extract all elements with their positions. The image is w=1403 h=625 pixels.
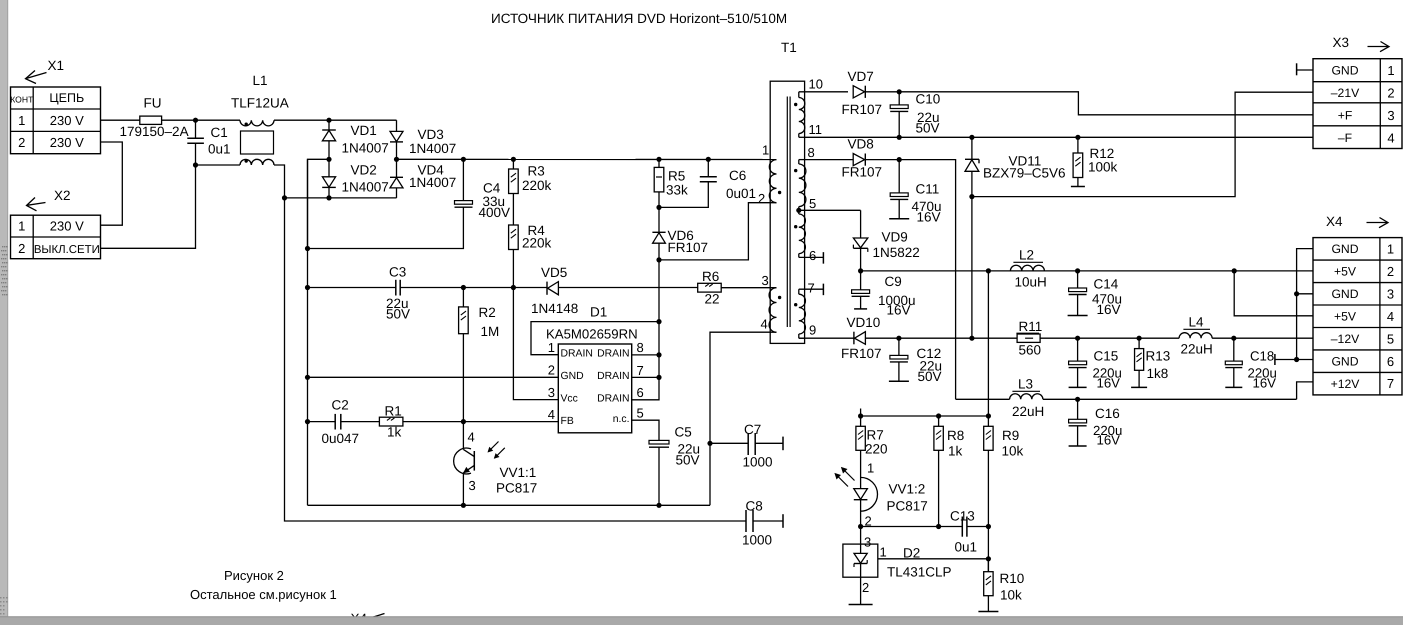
connector X4 arrow <box>1367 222 1388 224</box>
svg-text:33k: 33k <box>666 183 688 198</box>
wire fuse to L1 <box>162 119 240 121</box>
transformer T1 secondary winding 8-5-6 <box>798 160 800 164</box>
svg-text:4: 4 <box>468 430 475 445</box>
transformer T1 pin11 lead <box>799 136 805 138</box>
connector X2 table <box>11 215 101 259</box>
svg-text:TL431CLP: TL431CLP <box>887 565 952 580</box>
IC D1 KA5M02659RN box <box>558 344 631 433</box>
svg-text:ЦЕПЬ: ЦЕПЬ <box>49 91 84 105</box>
svg-text:C14: C14 <box>1094 277 1119 292</box>
svg-text:DRAIN: DRAIN <box>597 394 629 405</box>
capacitor C15 <box>1077 338 1079 361</box>
svg-text:50V: 50V <box>918 369 942 384</box>
svg-text:R5: R5 <box>668 169 685 184</box>
capacitor C3 <box>308 287 396 289</box>
svg-text:L4: L4 <box>1189 315 1205 330</box>
wire R7 R8 R9 top line <box>861 415 989 417</box>
svg-text:C6: C6 <box>729 168 746 183</box>
connector X3 GND stub <box>1297 69 1313 71</box>
svg-text:R1: R1 <box>385 404 402 419</box>
wire X4.1 GND stub <box>1297 249 1313 360</box>
svg-text:1k8: 1k8 <box>1147 366 1169 381</box>
wire +5V line <box>861 270 1313 272</box>
svg-text:C15: C15 <box>1094 349 1119 364</box>
resistor R7 <box>860 416 862 426</box>
node R12 top <box>1075 135 1080 140</box>
node R7R9 riser top <box>986 268 991 273</box>
svg-text:VV1:2: VV1:2 <box>889 482 926 497</box>
svg-text:+12V: +12V <box>1331 377 1361 391</box>
diode VD3 <box>396 120 398 131</box>
node VD2 bottom <box>326 195 331 200</box>
svg-text:220: 220 <box>865 442 888 457</box>
svg-text:5: 5 <box>809 196 816 211</box>
node R5 top <box>656 157 661 162</box>
resistor R9 <box>987 416 989 426</box>
svg-text:Vcc: Vcc <box>561 394 578 405</box>
node +5V riser to X4.4 <box>1232 268 1237 273</box>
svg-text:3: 3 <box>864 535 871 550</box>
svg-text:0u047: 0u047 <box>322 431 360 446</box>
svg-text:VD7: VD7 <box>848 69 874 84</box>
resistor R10 <box>987 559 989 572</box>
svg-text:R7: R7 <box>867 428 884 443</box>
transformer T1 primary winding 1-2 <box>769 160 776 203</box>
wire AC1 top rail <box>274 119 397 121</box>
wire x307 bus <box>307 159 309 505</box>
svg-text:10uH: 10uH <box>1015 275 1047 290</box>
wire +5V riser to R7 R8 R9 <box>987 271 989 416</box>
node GND line on bus <box>305 375 310 380</box>
svg-text:FB: FB <box>561 416 574 427</box>
svg-text:2: 2 <box>1387 85 1394 100</box>
node X4.6 GND <box>1294 357 1299 362</box>
capacitor C13 <box>961 517 963 537</box>
diode VD9 <box>860 210 862 238</box>
svg-text:22: 22 <box>705 292 720 307</box>
svg-text:22uH: 22uH <box>1012 404 1044 419</box>
svg-text:8: 8 <box>637 340 644 355</box>
svg-text:C11: C11 <box>916 182 940 197</box>
svg-text:VD8: VD8 <box>848 137 874 152</box>
svg-text:GND: GND <box>1331 64 1358 78</box>
svg-text:4: 4 <box>548 407 555 422</box>
svg-text:C7: C7 <box>744 422 761 437</box>
node C1 bottom <box>193 162 198 167</box>
node C7 branch <box>707 441 712 446</box>
node AC2 rail <box>282 195 287 200</box>
diode VD6 <box>658 207 660 232</box>
IC D2 zener symbol <box>860 544 862 553</box>
wire primary bottom rail <box>308 504 711 506</box>
capacitor C6 <box>707 159 709 177</box>
optocoupler VV1:1 light arrows <box>488 442 498 452</box>
svg-text:1: 1 <box>1387 241 1394 256</box>
svg-text:10k: 10k <box>1002 444 1024 459</box>
diode VD1 <box>328 120 330 130</box>
resistor R4 <box>509 225 519 250</box>
wire L4 to X4.5 <box>1212 337 1313 339</box>
transformer T1 pin8 lead <box>799 159 805 161</box>
connector X1 table <box>11 87 101 154</box>
wire X4.6 GND stub with tick <box>1275 359 1313 361</box>
node R9 top <box>986 413 991 418</box>
svg-text:C10: C10 <box>916 92 941 107</box>
wire X1.2 to X2.1 <box>101 142 123 225</box>
svg-text:C9: C9 <box>885 274 902 289</box>
svg-text:R3: R3 <box>528 164 545 179</box>
svg-text:1k: 1k <box>948 444 963 459</box>
svg-text:6: 6 <box>1387 354 1394 369</box>
node R4 bottom / Vcc <box>511 285 516 290</box>
transformer T1 primary winding 3-4 <box>769 288 776 333</box>
resistor R13 <box>1138 338 1140 348</box>
svg-text:R8: R8 <box>947 428 964 443</box>
svg-text:VD1: VD1 <box>351 123 377 138</box>
transformer T1 tap pin5 <box>796 208 801 213</box>
svg-text:8: 8 <box>808 145 815 160</box>
node C6 top <box>706 157 711 162</box>
svg-text:1: 1 <box>18 113 25 128</box>
svg-text:VD2: VD2 <box>351 163 377 178</box>
node X4.3 GND <box>1294 291 1299 296</box>
svg-text:1N4148: 1N4148 <box>531 301 578 316</box>
svg-text:3: 3 <box>1387 286 1394 301</box>
svg-text:10: 10 <box>809 77 823 92</box>
svg-text:GND: GND <box>1331 242 1358 256</box>
svg-text:DRAIN: DRAIN <box>597 371 629 382</box>
svg-text:C13: C13 <box>950 509 975 524</box>
svg-text:R13: R13 <box>1146 349 1171 364</box>
connector X3 table <box>1313 59 1402 149</box>
svg-text:220k: 220k <box>522 236 552 251</box>
node D2 ref R9 R10 <box>986 556 991 561</box>
svg-text:4: 4 <box>761 317 768 332</box>
svg-text:1: 1 <box>762 143 769 158</box>
svg-text:1: 1 <box>880 545 887 560</box>
wire -F line pin11 to X3.4 <box>805 136 1313 138</box>
svg-text:VD5: VD5 <box>541 265 567 280</box>
svg-text:2: 2 <box>862 580 869 595</box>
svg-text:DRAIN: DRAIN <box>597 348 629 359</box>
svg-text:TLF12UA: TLF12UA <box>231 96 289 111</box>
node DC minus to C4 <box>305 246 310 251</box>
wire drain bus <box>658 260 660 322</box>
svg-text:ВЫКЛ.СЕТИ: ВЫКЛ.СЕТИ <box>34 244 100 256</box>
optocoupler VV1:1 transistor <box>454 448 471 474</box>
svg-text:KA5M02659RN: KA5M02659RN <box>546 327 638 342</box>
wire C13 line <box>861 526 963 528</box>
wire +5V to X4.4 <box>1234 271 1313 316</box>
svg-text:D2: D2 <box>903 546 920 561</box>
node drain pin7 <box>656 375 661 380</box>
svg-text:179150–2A: 179150–2A <box>120 124 189 139</box>
svg-text:C1: C1 <box>211 125 228 140</box>
capacitor C11 <box>898 160 900 193</box>
diode VD7 <box>853 86 864 98</box>
node R8 bottom <box>936 524 941 529</box>
IC D1 pin1 route <box>531 322 659 355</box>
wire GND route pin2 <box>308 376 559 378</box>
transformer T1 pin9 lead <box>799 337 805 339</box>
transformer T1 box <box>770 81 804 343</box>
svg-text:100k: 100k <box>1088 160 1118 175</box>
node VD1 top <box>326 118 331 123</box>
wire +12V down bus <box>899 160 955 400</box>
svg-text:R11: R11 <box>1019 319 1043 334</box>
wire L1 bottom input <box>196 164 241 166</box>
svg-text:GND: GND <box>1331 354 1358 368</box>
diode VD11 zener <box>971 137 973 159</box>
node R13 top <box>1137 336 1142 341</box>
svg-text:FR107: FR107 <box>842 165 883 180</box>
svg-text:VD3: VD3 <box>418 127 444 142</box>
optocoupler VV1:2 light arrows <box>836 474 849 487</box>
svg-text:1: 1 <box>1387 63 1394 78</box>
svg-text:L3: L3 <box>1018 377 1033 392</box>
svg-text:PC817: PC817 <box>496 481 537 496</box>
svg-text:+5V: +5V <box>1334 265 1357 279</box>
svg-text:1N5822: 1N5822 <box>873 245 920 260</box>
capacitor C10 <box>898 92 900 105</box>
svg-text:n.c.: n.c. <box>613 414 630 425</box>
svg-text:0u1: 0u1 <box>955 540 978 555</box>
svg-text:D1: D1 <box>590 305 607 320</box>
svg-text:10k: 10k <box>1000 588 1022 603</box>
inductor L1 polarity dots <box>245 123 248 126</box>
svg-text:X4: X4 <box>1326 214 1343 229</box>
node C10 bottom <box>897 135 902 140</box>
diode VD4 <box>396 159 398 177</box>
resistor R5 <box>658 159 660 167</box>
svg-text:–F: –F <box>1338 131 1352 145</box>
resistor R8 <box>938 416 940 426</box>
svg-text:ИСТОЧНИК ПИТАНИЯ DVD Horizont: ИСТОЧНИК ПИТАНИЯ DVD Horizont–510/510M <box>491 11 787 26</box>
inductor L1 core <box>241 131 274 154</box>
svg-text:2: 2 <box>548 363 555 378</box>
node VD3-VD4 (DC plus) <box>394 157 399 162</box>
svg-text:5: 5 <box>1387 331 1394 346</box>
resistor R1 <box>379 417 403 426</box>
svg-text:L2: L2 <box>1019 248 1034 263</box>
svg-text:0u1: 0u1 <box>208 142 231 157</box>
transformer T1 pin6 stub <box>799 256 824 258</box>
svg-text:GND: GND <box>1331 287 1358 301</box>
svg-text:C2: C2 <box>332 398 349 413</box>
node drain pin1 line <box>656 319 661 324</box>
svg-text:16V: 16V <box>1253 375 1277 390</box>
svg-text:FU: FU <box>144 96 162 111</box>
svg-text:230 V: 230 V <box>50 135 84 150</box>
node C15 top <box>1075 336 1080 341</box>
svg-text:FR107: FR107 <box>842 102 883 117</box>
svg-text:50V: 50V <box>676 453 700 468</box>
svg-text:GND: GND <box>561 371 584 382</box>
node VD11 top <box>969 135 974 140</box>
svg-text:PC817: PC817 <box>887 499 928 514</box>
IC D1 pin8 stub <box>632 354 659 356</box>
wire X2.2 to C1 bottom <box>101 165 196 248</box>
svg-text:R9: R9 <box>1002 428 1019 443</box>
node drain pin8 <box>656 352 661 357</box>
wire Vcc route pin3 <box>513 288 558 400</box>
svg-text:7: 7 <box>1387 376 1394 391</box>
node C12 top <box>896 336 901 341</box>
node C11 top <box>897 157 902 162</box>
svg-text:2: 2 <box>758 191 765 206</box>
wire DC plus rail <box>397 158 777 160</box>
svg-text:16V: 16V <box>887 303 911 318</box>
IC D1 pin5 stub to C5 <box>632 420 659 440</box>
wire -12V line to L4 <box>1078 337 1180 339</box>
optocoupler VV1:2 LED <box>861 477 878 511</box>
capacitor C12 <box>898 338 900 355</box>
node C4 top <box>461 157 466 162</box>
node C2 line on bus <box>305 419 310 424</box>
svg-text:6: 6 <box>637 385 644 400</box>
capacitor C8 <box>745 510 747 532</box>
capacitor C7 <box>710 442 748 444</box>
svg-text:FR107: FR107 <box>841 346 882 361</box>
svg-text:2: 2 <box>18 241 25 256</box>
svg-text:6: 6 <box>809 248 816 263</box>
connector X3 arrow <box>1368 46 1389 48</box>
svg-text:3: 3 <box>469 478 476 493</box>
svg-text:16V: 16V <box>1097 433 1121 448</box>
transformer T1 pin10 lead <box>799 91 848 93</box>
wire L1 bottom out going down <box>274 165 285 198</box>
svg-text:1N4007: 1N4007 <box>409 175 456 190</box>
svg-text:7: 7 <box>808 281 815 296</box>
IC D2 TL431 box <box>860 527 862 545</box>
node x307 bus to C3 line <box>305 285 310 290</box>
svg-text:3: 3 <box>1387 108 1394 123</box>
capacitor C5 <box>649 440 669 444</box>
svg-text:FR107: FR107 <box>668 240 709 255</box>
wire +12V to X4.7 <box>1043 398 1297 400</box>
capacitor C14 <box>1077 271 1079 288</box>
node C18 top <box>1231 336 1236 341</box>
wire +F to X3.3 <box>899 92 1313 115</box>
svg-text:400V: 400V <box>479 205 511 220</box>
svg-text:4: 4 <box>1387 309 1394 324</box>
svg-text:7: 7 <box>637 363 644 378</box>
svg-text:R6: R6 <box>702 269 719 284</box>
svg-text:220k: 220k <box>522 178 552 193</box>
svg-text:50V: 50V <box>386 307 410 322</box>
node R7 top <box>858 413 863 418</box>
wire DC minus from bridge <box>308 159 330 248</box>
resistor R12 <box>1077 137 1079 153</box>
diode VD8 <box>805 159 854 161</box>
svg-text:R10: R10 <box>1000 571 1025 586</box>
svg-text:22uH: 22uH <box>1181 342 1213 357</box>
wire DC minus to C4 bottom <box>308 207 464 248</box>
wire AC2 to C8 <box>285 198 747 521</box>
node R1 R2 collector FB <box>461 419 466 424</box>
svg-text:4: 4 <box>1387 130 1394 145</box>
capacitor C2 <box>308 421 336 423</box>
svg-text:230 V: 230 V <box>50 113 84 128</box>
svg-text:VV1:1: VV1:1 <box>500 465 537 480</box>
IC D1 pin7 stub <box>632 376 659 378</box>
svg-text:2: 2 <box>18 135 25 150</box>
svg-text:1N4007: 1N4007 <box>342 140 389 155</box>
svg-text:C18: C18 <box>1250 349 1274 364</box>
node R8 top <box>936 413 941 418</box>
node R3 top <box>511 157 516 162</box>
fuse FU <box>140 116 162 124</box>
node C10 top <box>897 89 902 94</box>
diode VD2 <box>328 159 330 176</box>
resistor R3 <box>512 159 514 169</box>
svg-text:50V: 50V <box>916 121 940 136</box>
svg-text:C8: C8 <box>746 499 763 514</box>
svg-text:1: 1 <box>867 461 874 476</box>
node VD11 bottom -21V <box>969 194 974 199</box>
transformer T1 secondary winding 10-11 <box>798 92 800 98</box>
node drain bus / T1 pin2 line <box>656 257 661 262</box>
node LED cathode <box>858 524 863 529</box>
svg-text:1: 1 <box>18 219 25 234</box>
wire -21V to X3.2 <box>972 92 1313 196</box>
svg-text:1k: 1k <box>387 425 402 440</box>
D2 cathode to ground <box>860 577 862 604</box>
capacitor C9 <box>860 271 862 290</box>
node C16 top <box>1075 397 1080 402</box>
svg-text:Остальное см.рисунок 1: Остальное см.рисунок 1 <box>190 587 337 602</box>
svg-text:X2: X2 <box>54 188 71 203</box>
svg-text:16V: 16V <box>1097 302 1121 317</box>
svg-text:C16: C16 <box>1095 406 1120 421</box>
svg-text:DRAIN: DRAIN <box>561 348 593 359</box>
D2 ref wire <box>878 558 989 560</box>
svg-text:VD9: VD9 <box>882 230 908 245</box>
wire T1 pin2 route <box>659 203 777 260</box>
node C6 bottom join R5 <box>656 205 661 210</box>
diode VD5 <box>546 282 548 295</box>
svg-text:11: 11 <box>809 122 823 137</box>
wire +12V line <box>956 398 1010 400</box>
svg-text:–12V: –12V <box>1331 332 1360 346</box>
svg-text:C3: C3 <box>389 265 406 280</box>
svg-text:X3: X3 <box>1333 35 1350 50</box>
svg-text:5: 5 <box>637 406 644 421</box>
svg-text:КОНТ: КОНТ <box>10 95 34 105</box>
inductor L1 bottom winding <box>240 159 274 165</box>
inductor L1 top winding <box>240 120 274 126</box>
svg-text:1M: 1M <box>481 324 500 339</box>
node VV1:1 emitter <box>461 503 466 508</box>
svg-text:BZX79–C5V6: BZX79–C5V6 <box>983 166 1066 181</box>
inductor L3 <box>1010 394 1043 400</box>
diode VD10 <box>799 337 854 339</box>
capacitor C18 <box>1233 338 1235 361</box>
svg-text:T1: T1 <box>781 40 797 55</box>
inductor L4 <box>1179 333 1212 339</box>
node C5 bottom <box>656 503 661 508</box>
svg-text:–21V: –21V <box>1331 86 1360 100</box>
capacitor C1 <box>195 120 197 138</box>
node VD1-VD2 (DC minus) <box>326 157 331 162</box>
connector X1 arrow <box>26 73 47 79</box>
svg-text:R2: R2 <box>479 305 496 320</box>
node R2 top <box>461 285 466 290</box>
svg-text:+F: +F <box>1338 109 1353 123</box>
capacitor C16 <box>1077 399 1079 419</box>
resistor R11 <box>1017 334 1040 342</box>
resistor R2 <box>462 288 464 307</box>
